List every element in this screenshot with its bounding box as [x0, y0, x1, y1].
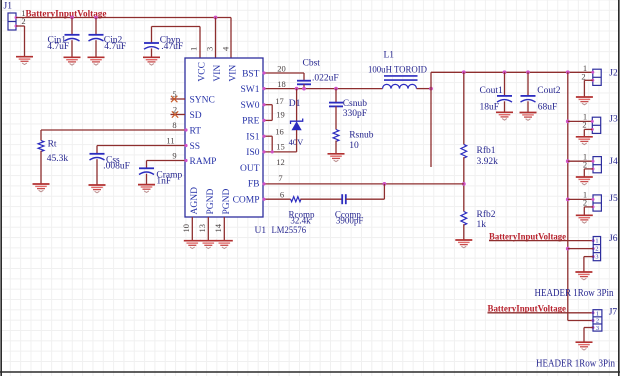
svg-text:68uF: 68uF — [538, 103, 558, 113]
svg-text:20: 20 — [277, 63, 286, 73]
wire Rfb1 top — [463, 72, 465, 144]
svg-text:HEADER 1Row 3Pin: HEADER 1Row 3Pin — [535, 288, 614, 299]
svg-text:1: 1 — [595, 238, 598, 245]
svg-text:VCC: VCC — [198, 62, 208, 82]
wire Css bottom — [96, 159, 98, 185]
wire Csnub-Rsnub — [335, 106, 337, 129]
wire COMP — [263, 198, 291, 200]
node bus-J4 — [566, 159, 570, 163]
svg-text:J7: J7 — [609, 308, 618, 318]
svg-text:PGND: PGND — [222, 188, 232, 214]
connector J4 — [593, 157, 601, 173]
svg-text:3900pF: 3900pF — [336, 216, 364, 226]
svg-text:4: 4 — [221, 46, 231, 51]
svg-text:J6: J6 — [609, 234, 618, 244]
resistor Rfb1 — [461, 144, 467, 158]
pin digits J6 — [595, 238, 598, 261]
wire J2 pin2 — [584, 79, 592, 81]
svg-text:15: 15 — [276, 142, 285, 152]
resistor Rcomp — [291, 197, 301, 202]
ground J4 — [576, 177, 593, 185]
svg-text:L1: L1 — [384, 50, 395, 60]
wire J7 pin3 — [584, 327, 593, 329]
node VOUT-Rfb1 — [462, 70, 466, 74]
wire SS — [97, 145, 185, 147]
capacitor Cin2 — [89, 35, 104, 41]
capacitor Cramp — [139, 168, 154, 174]
svg-text:.022uF: .022uF — [312, 73, 339, 83]
wire Rt bottom — [40, 151, 42, 184]
wire Cout1 bottom — [504, 101, 506, 112]
svg-text:Rt: Rt — [48, 139, 57, 149]
diode D1 schottky — [291, 119, 303, 131]
svg-text:Cout1: Cout1 — [480, 86, 503, 96]
wire Rcomp-Ccomp — [300, 198, 342, 200]
svg-text:Csnub: Csnub — [343, 99, 368, 109]
wire J6 pin1 BatteryInputVoltage — [489, 240, 593, 242]
node bus-J5 — [566, 198, 570, 202]
wire RT down — [40, 130, 42, 141]
svg-text:PRE: PRE — [242, 117, 260, 127]
wire RT — [41, 129, 185, 131]
wire J3 pin2 — [584, 128, 592, 130]
svg-text:3: 3 — [205, 47, 215, 51]
capacitor Csnub — [329, 103, 343, 107]
ground PGND 13 — [200, 241, 217, 249]
wire Cin1 bottom — [71, 40, 73, 57]
ground Css — [89, 185, 106, 193]
node FB-Ccomp — [383, 182, 387, 186]
resistor Rfb2 — [461, 212, 467, 226]
capacitor Cout2 — [521, 96, 536, 102]
svg-text:9: 9 — [172, 150, 176, 160]
svg-text:IS1: IS1 — [246, 132, 259, 142]
svg-text:SS: SS — [190, 142, 201, 152]
svg-text:10: 10 — [349, 141, 359, 151]
svg-text:PGND: PGND — [206, 188, 216, 214]
ground AGND — [184, 241, 201, 249]
ground Cin1 — [64, 57, 81, 65]
wire Cin2 top — [95, 18, 97, 35]
wire D1 cathode up — [296, 89, 298, 122]
svg-text:3.92k: 3.92k — [477, 157, 499, 167]
ground Rfb2 — [455, 240, 472, 248]
svg-text:11: 11 — [166, 135, 174, 145]
wire Cbyp bottom — [151, 48, 153, 57]
wire D1 anode down — [296, 130, 298, 152]
svg-text:VIN: VIN — [213, 65, 223, 82]
wire J1 pin2 down — [24, 26, 26, 57]
wire VIN pin4 — [230, 18, 232, 59]
inductor L1 — [383, 76, 418, 89]
node bus-J3 — [566, 120, 570, 124]
wire SW node — [263, 88, 383, 90]
wire Cramp bottom — [146, 174, 148, 185]
svg-text:18: 18 — [277, 79, 286, 89]
svg-text:SW0: SW0 — [241, 101, 260, 111]
wire Cbyp top — [151, 27, 153, 44]
wire bus to J7 pin2 — [568, 320, 593, 322]
svg-text:32.4k: 32.4k — [290, 216, 311, 226]
wire J7 pin3 down — [583, 328, 585, 343]
wire RAMP — [147, 160, 186, 162]
wire J4 pin1 — [568, 160, 593, 162]
node VOUT-Cout2 — [526, 70, 530, 74]
wire J6 pin3 down — [583, 257, 585, 272]
ground Cramp — [138, 185, 155, 193]
svg-text:RAMP: RAMP — [190, 157, 217, 167]
wire J5 pin2 — [584, 206, 593, 208]
capacitor Cin1 — [65, 35, 80, 41]
svg-text:8: 8 — [172, 120, 176, 130]
svg-text:OUT: OUT — [240, 164, 260, 174]
ground Cbyp — [143, 57, 160, 65]
svg-text:4.7uF: 4.7uF — [47, 42, 69, 52]
wire J6 pin3 — [584, 256, 593, 258]
svg-text:Cout2: Cout2 — [537, 86, 560, 96]
wire J5 pin1 — [568, 198, 593, 200]
svg-text:J4: J4 — [609, 157, 618, 167]
svg-text:12: 12 — [276, 157, 285, 167]
svg-text:16: 16 — [275, 127, 284, 137]
svg-text:LM25576: LM25576 — [272, 226, 307, 236]
svg-text:BST: BST — [242, 70, 260, 80]
node FB divider — [462, 182, 466, 186]
connector J5 — [593, 195, 601, 211]
ground Cin2 — [88, 57, 105, 65]
svg-text:6: 6 — [280, 189, 284, 199]
wire Csnub top — [335, 89, 337, 103]
svg-text:13: 13 — [197, 224, 207, 233]
wire Cin1 top — [71, 18, 73, 35]
wire RAMP down — [146, 161, 148, 169]
node VOUT-bus — [566, 70, 570, 74]
wire J4 pin2 — [584, 168, 593, 170]
svg-text:2: 2 — [595, 246, 598, 253]
wire output up — [430, 72, 432, 88]
wire Ccomp up to FB — [383, 184, 385, 199]
node SW-D1 — [295, 87, 299, 91]
wire J6 pin2 — [568, 248, 593, 250]
node bus-J6 — [566, 247, 570, 251]
pin stub SW0 17 — [263, 104, 272, 106]
wire Cin2 bottom — [95, 40, 97, 57]
svg-text:J3: J3 — [609, 114, 618, 124]
svg-text:D1: D1 — [289, 99, 301, 109]
wire Rfb1 bottom — [463, 157, 465, 211]
wire Rsnub bottom — [335, 141, 337, 154]
node L1 output — [429, 87, 433, 91]
svg-text:3: 3 — [596, 325, 599, 332]
svg-text:17: 17 — [275, 96, 284, 106]
connector J7 — [593, 310, 602, 331]
svg-text:10: 10 — [181, 224, 191, 233]
ground J6 — [575, 272, 592, 280]
svg-text:14: 14 — [213, 223, 223, 232]
resistor Rt — [38, 141, 44, 152]
capacitor Css — [90, 154, 105, 160]
wire J1 pin2 — [16, 25, 25, 27]
svg-text:1k: 1k — [477, 220, 487, 230]
wire SW0-PRE bracket — [271, 105, 273, 121]
svg-text:Cbst: Cbst — [303, 59, 321, 69]
svg-text:RT: RT — [190, 126, 202, 136]
node rail-Cin1 — [70, 16, 74, 20]
wire J5 pin2 down — [583, 207, 585, 215]
svg-text:Rfb2: Rfb2 — [477, 209, 496, 220]
capacitor Ccomp — [342, 194, 346, 204]
ground Rsnub — [328, 154, 345, 162]
svg-text:.47uF: .47uF — [161, 42, 183, 52]
ground J7 — [576, 342, 593, 350]
node VOUT-Cout1 — [503, 70, 507, 74]
svg-text:Rfb1: Rfb1 — [477, 145, 496, 156]
pin stub PRE 19 — [263, 119, 272, 121]
svg-text:SYNC: SYNC — [190, 95, 215, 105]
svg-text:FB: FB — [248, 180, 260, 190]
svg-text:J2: J2 — [609, 69, 618, 79]
wire J4 pin2 down — [583, 169, 585, 177]
svg-text:1: 1 — [596, 310, 599, 317]
wire VOUT rail — [431, 71, 593, 73]
svg-text:1nF: 1nF — [156, 176, 171, 186]
node rail-Cin2 — [94, 16, 98, 20]
connector J3 — [592, 117, 600, 133]
node SW-Csnub — [334, 87, 338, 91]
wire Cout2 bottom — [527, 101, 529, 112]
ground Rt — [33, 184, 50, 192]
svg-text:U1: U1 — [255, 226, 267, 236]
svg-text:18uF: 18uF — [480, 102, 500, 112]
svg-text:4.7uF: 4.7uF — [104, 42, 126, 52]
node SW-Cbst — [302, 87, 306, 91]
wire Cout1 top — [504, 72, 506, 96]
pin stub PGND 14 — [223, 217, 225, 241]
wire SS down — [96, 146, 98, 154]
ground J2 — [576, 97, 593, 105]
ground Cout1 — [496, 112, 513, 120]
svg-text:J5: J5 — [609, 194, 618, 204]
svg-text:45.3k: 45.3k — [47, 154, 69, 164]
ground J5 — [576, 215, 593, 223]
op-amp U1 LM25576 body — [185, 58, 263, 217]
svg-text:SD: SD — [190, 111, 202, 121]
ground PGND 14 — [216, 241, 233, 249]
ground J1 — [16, 57, 33, 65]
node rail-VIN3 — [214, 16, 218, 20]
ground J3 — [576, 137, 593, 145]
pin stub PGND 13 — [207, 217, 209, 241]
svg-text:HEADER 1Row 3Pin: HEADER 1Row 3Pin — [536, 359, 615, 370]
wire Cbst bottom — [303, 84, 305, 88]
svg-text:3: 3 — [595, 254, 598, 261]
wire IS1-IS0 bracket — [271, 136, 273, 152]
capacitor Cout1 — [497, 96, 512, 102]
svg-text:1: 1 — [189, 47, 199, 51]
pin stub IS1 16 — [263, 135, 272, 137]
wire IS0 to diode — [263, 151, 297, 153]
capacitor Cbyp — [144, 43, 159, 49]
wire VOUT bus — [567, 72, 569, 320]
wire VCC horizontal — [152, 26, 201, 28]
wire L1 out — [417, 88, 432, 90]
svg-text:7: 7 — [278, 173, 282, 183]
wire VIN pin3 — [215, 18, 217, 59]
svg-text:AGND: AGND — [190, 187, 200, 215]
wire J7 pin1 BatteryInputVoltage — [488, 312, 594, 314]
wire Cout2 top — [527, 72, 529, 96]
pin digits J7 — [596, 310, 599, 331]
wire FB — [263, 183, 464, 185]
svg-text:SW1: SW1 — [241, 85, 260, 95]
pin stub SYNC with no-connect — [171, 98, 186, 100]
svg-text:19: 19 — [276, 109, 285, 119]
wire Rfb2 bottom — [463, 224, 465, 240]
wire BST — [263, 72, 304, 74]
svg-text:Rsnub: Rsnub — [349, 131, 374, 141]
capacitor Cbst — [297, 81, 311, 85]
wire BatteryInputVoltage rail — [16, 17, 231, 19]
svg-text:J1: J1 — [4, 2, 13, 12]
wire Ccomp right — [346, 198, 385, 200]
wire J2 pin2 down — [583, 80, 585, 97]
svg-text:COMP: COMP — [233, 195, 260, 205]
ground Cout2 — [520, 113, 537, 121]
svg-text:2: 2 — [596, 318, 599, 325]
svg-text:100uH TOROID: 100uH TOROID — [368, 65, 427, 75]
connector J1 — [8, 13, 16, 30]
wire output stub down — [430, 89, 432, 167]
wire J3 pin1 — [568, 120, 593, 122]
svg-text:IS0: IS0 — [246, 148, 259, 158]
connector J2 — [593, 69, 601, 85]
connector J6 — [593, 237, 600, 261]
resistor Rsnub — [333, 130, 339, 142]
wire BST down to Cbst — [303, 73, 305, 81]
wire J3 pin2 down — [583, 129, 585, 136]
pin stub AGND — [191, 217, 193, 241]
svg-text:VIN: VIN — [229, 65, 239, 82]
wire VCC vertical pin1 — [199, 27, 201, 59]
pin stub SD with no-connect — [171, 114, 186, 116]
svg-text:.008uF: .008uF — [103, 161, 130, 171]
svg-text:330pF: 330pF — [343, 109, 367, 119]
